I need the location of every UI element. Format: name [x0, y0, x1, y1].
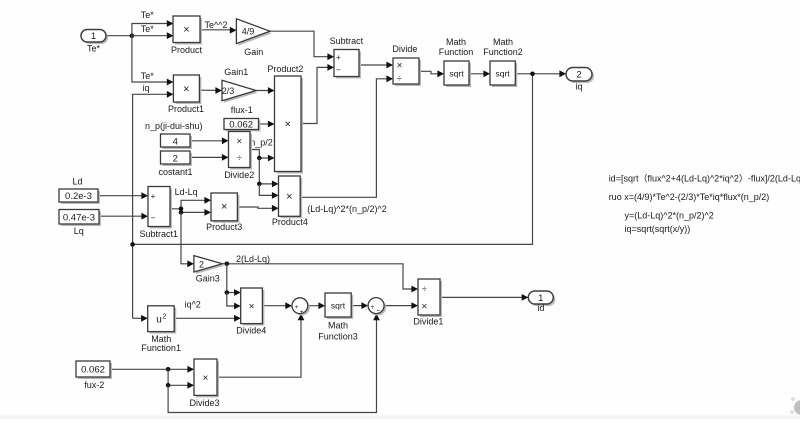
svg-text:costant1: costant1 [158, 167, 192, 177]
wire branch to Divide4 input 2 [227, 293, 241, 310]
wire Gain output to Subtract input 1 [270, 31, 334, 60]
wire iq feedback return from Math Function2 output [133, 74, 533, 245]
gain block Gain 4/9 [236, 19, 272, 57]
wire constant 4 to Divide2 input 1 [190, 137, 229, 144]
wire iq feedback vertical to Product1 input 2 [133, 91, 174, 318]
node label iq^2 [185, 300, 201, 310]
svg-text:Ld: Ld [72, 176, 82, 186]
svg-text:Divide2: Divide2 [224, 170, 254, 180]
svg-text:sqrt: sqrt [331, 301, 346, 311]
junction Ld-Lq split upper [179, 207, 184, 212]
svg-text:×: × [183, 84, 189, 96]
product block Product [171, 16, 203, 55]
wire Te* trunk down to Product1 input 1 [132, 36, 174, 86]
svg-text:Divide3: Divide3 [189, 398, 219, 408]
svg-text:+: + [295, 304, 299, 311]
wire Gain3 branch down to Divide4 input 1 [227, 264, 241, 296]
annotation equation line 4 [625, 224, 691, 234]
wire Gain3 output 2(Ld-Lq) to Divide1 input 1 [222, 264, 418, 293]
svg-text:4/9: 4/9 [242, 26, 255, 36]
svg-text:2/3: 2/3 [222, 86, 235, 96]
annotation equation line 3 [625, 210, 714, 220]
wire Divide4 output to sum circle 1 [262, 302, 292, 309]
svg-text:n_p/2: n_p/2 [250, 138, 273, 148]
watermark logo bottom-right corner [790, 397, 800, 415]
wire Divide1 output to outport id [440, 294, 528, 301]
node label Te* at Product1 [141, 71, 155, 81]
svg-text:Divide4: Divide4 [236, 325, 266, 335]
math block Math Function2 sqrt [483, 37, 523, 87]
svg-text:+: + [336, 53, 341, 62]
node label Te* second [141, 24, 155, 34]
junction iq output split [530, 72, 535, 77]
sum block Subtract1 [140, 187, 179, 240]
svg-text:0.47e-3: 0.47e-3 [63, 212, 95, 223]
svg-text:Product2: Product2 [267, 64, 303, 74]
svg-text:×: × [397, 61, 403, 72]
product block Product4 [272, 176, 308, 227]
svg-text:×: × [202, 373, 208, 384]
wire Subtract1 output Ld-Lq split [170, 197, 211, 216]
svg-text:Product1: Product1 [168, 104, 204, 114]
constant block Ld 0.2e-3 [59, 176, 100, 204]
svg-text:−: − [336, 65, 341, 74]
svg-text:4: 4 [173, 136, 178, 147]
svg-text:×: × [221, 201, 227, 213]
svg-text:Product3: Product3 [206, 222, 242, 232]
junction n_p/2 split 2 [257, 182, 262, 187]
svg-text:Te*: Te* [141, 24, 155, 34]
inport 1 Te* [81, 30, 108, 54]
divide block Divide [392, 44, 421, 86]
svg-text:Function3: Function3 [318, 332, 358, 342]
wire Ld-Lq down to Gain3 [181, 212, 194, 267]
wire Subtract output to Divide input 1 [359, 62, 393, 69]
product block Divide4 [236, 288, 266, 335]
svg-text:Te*: Te* [141, 71, 155, 81]
math block Math Function3 sqrt [318, 293, 358, 342]
svg-text:1: 1 [91, 31, 96, 42]
svg-text:iq=sqrt(sqrt(x/y)): iq=sqrt(sqrt(x/y)) [625, 224, 691, 234]
svg-text:Te*: Te* [87, 44, 101, 54]
wire constant 2 to Divide2 input 2 [190, 154, 229, 161]
wire sum circle 2 to Divide1 input 2 [384, 302, 418, 309]
svg-text:u: u [156, 315, 162, 326]
svg-text:×: × [421, 301, 427, 312]
math block Math Function1 u^2 [141, 306, 181, 353]
wire Math Function3 to sum circle 2 [351, 302, 368, 309]
svg-text:sqrt: sqrt [449, 69, 464, 79]
wire Product3 output to Product4 input 3 [237, 205, 278, 212]
svg-text:2: 2 [163, 314, 167, 321]
wire fux-2 long route to sum circle 2 bottom [168, 314, 380, 413]
product block Product3 [206, 193, 242, 232]
svg-text:Product: Product [171, 45, 203, 55]
svg-text:Product4: Product4 [272, 217, 308, 227]
svg-text:+: + [151, 192, 156, 201]
node label Te* upper [141, 10, 155, 20]
svg-text:(Ld-Lq)^2*(n_p/2)^2: (Ld-Lq)^2*(n_p/2)^2 [307, 204, 387, 214]
annotation equation line 1 [609, 174, 800, 184]
svg-text:×: × [236, 137, 242, 148]
svg-text:Subtract1: Subtract1 [140, 229, 179, 239]
wire fux-2 constant to Divide3 input 1 [110, 366, 194, 373]
svg-text:0.2e-3: 0.2e-3 [65, 191, 92, 202]
svg-text:Function: Function [439, 47, 474, 57]
svg-text:Lq: Lq [74, 226, 84, 236]
product block Product2 [267, 64, 303, 174]
svg-text:2(Ld-Lq): 2(Ld-Lq) [236, 254, 270, 264]
wire Product1 output to Gain1 [199, 87, 222, 94]
svg-text:iq: iq [142, 83, 149, 93]
constant block 2 costant1 [158, 151, 192, 177]
svg-text:Divide: Divide [392, 44, 417, 54]
node label iq at Product1 [142, 83, 149, 93]
svg-text:Divide1: Divide1 [413, 317, 443, 327]
svg-text:2: 2 [576, 70, 581, 81]
math block Math Function sqrt [439, 37, 474, 87]
svg-text:Ld-Lq: Ld-Lq [175, 187, 198, 197]
wire Product4 output to Divide input 2 [300, 75, 393, 197]
svg-text:×: × [286, 191, 292, 203]
svg-text:×: × [183, 24, 189, 36]
svg-text:−: − [376, 308, 380, 315]
constant block 4 [161, 134, 193, 149]
svg-text:Math: Math [328, 320, 348, 330]
svg-text:fux-2: fux-2 [84, 380, 104, 390]
svg-text:÷: ÷ [397, 74, 402, 84]
svg-text:sqrt: sqrt [496, 69, 511, 79]
window bottom edge strip [0, 416, 800, 420]
svg-text:iq: iq [575, 81, 582, 91]
svg-text:2: 2 [199, 259, 204, 269]
node label Te^^2 [205, 20, 228, 30]
svg-text:Math: Math [446, 37, 466, 47]
sum circle 1 [292, 298, 310, 316]
node label n_p(ji-dui-shu) [145, 121, 203, 131]
svg-text:id=[sqrt（flux^2+4(Ld-Lq)^2*iq^: id=[sqrt（flux^2+4(Ld-Lq)^2*iq^2）-flux]/2… [609, 174, 800, 184]
junction Ld-Lq split lower [179, 210, 184, 215]
junction fux-2 split 2 [166, 383, 171, 388]
divide block Divide2 [224, 132, 254, 180]
junction Gain3 output split [225, 262, 230, 267]
wire junction to Product input 2 [132, 32, 174, 39]
wire n_p/2 down to Product4 input 2 [259, 184, 278, 199]
svg-text:−: − [151, 214, 156, 223]
svg-text:n_p(ji-dui-shu): n_p(ji-dui-shu) [145, 121, 203, 131]
outport 1 id [528, 291, 555, 313]
wire Ld constant to Subtract1 input 1 [98, 192, 148, 199]
sum block Subtract [330, 36, 364, 78]
product block Divide3 [189, 359, 219, 408]
wire flux-1 to Product2 input 2 [259, 121, 275, 128]
wire Lq constant to Subtract1 input 2 [99, 213, 148, 220]
svg-text:Function2: Function2 [483, 47, 523, 57]
wire Math Function2 output to outport iq [515, 70, 566, 77]
node label 2(Ld-Lq) [236, 254, 270, 264]
svg-text:+: + [371, 304, 375, 311]
constant block fux-2 value 0.062 [76, 361, 112, 390]
svg-text:Gain: Gain [244, 47, 263, 57]
node label n_p/2 [250, 138, 273, 148]
svg-text:2: 2 [173, 153, 178, 164]
svg-text:0.062: 0.062 [229, 120, 253, 131]
svg-text:÷: ÷ [422, 284, 427, 294]
product block Product1 [168, 75, 204, 114]
svg-text:Gain3: Gain3 [196, 273, 220, 283]
wire Divide3 output to sum circle 1 bottom [217, 314, 304, 378]
wire Math Function to Math Function2 [469, 70, 490, 77]
constant block flux-1 value 0.062 [224, 105, 261, 132]
outport 2 iq [566, 68, 594, 92]
divide block Divide1 [413, 279, 443, 327]
node label Ld-Lq [175, 187, 198, 197]
svg-text:×: × [249, 302, 255, 313]
wire Product output to Gain [200, 27, 236, 34]
svg-text:Subtract: Subtract [330, 36, 364, 46]
wire sum circle 1 to Math Function3 [308, 302, 325, 309]
svg-text:Te*: Te* [141, 10, 155, 20]
wire Product2 output to Subtract input 2 [301, 64, 334, 124]
junction Divide4 inputs split [225, 290, 230, 295]
sum circle 2 [368, 298, 386, 316]
svg-text:+: + [300, 309, 304, 316]
svg-text:Te^^2: Te^^2 [205, 20, 228, 30]
svg-text:id: id [537, 303, 544, 313]
svg-text:ruo x=(4/9)*Te^2-(2/3)*Te*iq*f: ruo x=(4/9)*Te^2-(2/3)*Te*iq*flux*(n_p/2… [609, 192, 770, 202]
wire fux-2 branch to Divide3 input 2 [168, 369, 194, 388]
constant block Lq 0.47e-3 [59, 210, 101, 236]
annotation equation line 2 [609, 192, 770, 202]
junction n_p/2 split 1 [257, 156, 262, 161]
svg-text:0.062: 0.062 [81, 365, 105, 376]
wire iq vertical into Math Function1 [133, 315, 148, 322]
svg-text:iq^2: iq^2 [185, 300, 201, 310]
svg-text:×: × [285, 119, 291, 131]
svg-text:y=(Ld-Lq)^2*(n_p/2)^2: y=(Ld-Lq)^2*(n_p/2)^2 [625, 210, 714, 220]
wire inport Te* to junction [106, 35, 132, 37]
svg-text:Gain1: Gain1 [224, 67, 248, 77]
wire Divide2 output n_p/2 to Product2 input 3 [250, 150, 275, 162]
wire Gain1 output to Product2 input 1 [256, 87, 275, 94]
wire n_p/2 down to Product4 input 1 [259, 158, 278, 187]
gain block Gain3 value 2 [194, 256, 225, 284]
svg-text:flux-1: flux-1 [231, 105, 253, 115]
junction Te* trunk split [130, 33, 135, 38]
svg-text:Function1: Function1 [141, 343, 181, 353]
svg-text:÷: ÷ [237, 153, 242, 163]
gain block Gain1 2/3 [222, 67, 258, 103]
junction iq feedback meets vertical [130, 242, 135, 247]
svg-text:Math: Math [493, 37, 513, 47]
wire Divide output to Math Function [419, 70, 444, 77]
wire junction up to Product input 1 [132, 20, 174, 36]
node label (Ld-Lq)^2*(n_p/2)^2 [307, 204, 387, 214]
wire Math Function1 output iq^2 to Divide4 input 3 [174, 315, 241, 322]
junction fux-2 split 1 [166, 367, 171, 372]
